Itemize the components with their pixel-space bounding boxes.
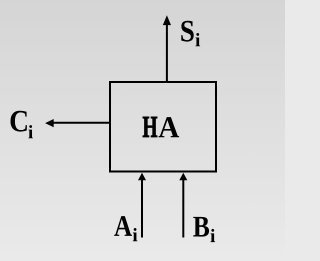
- arrowhead B: [179, 173, 187, 181]
- wire A (input, up into box bottom): [141, 180, 143, 238]
- wire S (sum output, up from box top): [166, 25, 168, 83]
- arrowhead S: [163, 15, 171, 25]
- label A subscript i: [133, 228, 138, 241]
- label B: [193, 217, 209, 237]
- label A: [114, 216, 132, 236]
- label C subscript i: [28, 125, 33, 138]
- arrowhead C: [45, 119, 54, 127]
- arrowhead A: [138, 173, 146, 181]
- label HA - letter H: [143, 117, 157, 137]
- wire C (carry output, left from box): [54, 122, 111, 124]
- label B subscript i: [210, 229, 215, 242]
- label HA - letter A: [159, 117, 180, 137]
- label S subscript i: [195, 33, 200, 46]
- wire B (input, up into box bottom): [182, 180, 184, 238]
- label S: [181, 21, 193, 42]
- half-adder block HA: [110, 82, 216, 172]
- label C: [10, 111, 26, 132]
